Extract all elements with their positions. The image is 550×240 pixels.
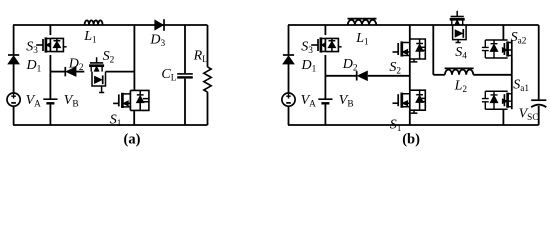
label D2 (b) <box>342 57 358 74</box>
wire Sa1 source riser (b) <box>502 109 504 125</box>
wire S3 drain (a) <box>49 25 51 35</box>
wire node to Sa1 drain (b) <box>511 75 513 91</box>
label VB (b) <box>339 93 354 110</box>
node B wire to battery (a) <box>49 72 51 99</box>
label RL <box>193 49 209 66</box>
wire node B to D2 (b) <box>325 75 356 77</box>
transistor S1 (b) <box>393 90 426 113</box>
transistor S3 (b) <box>311 37 341 52</box>
wire left branch upper (b) <box>288 25 290 55</box>
wire VB to bottom rail (a) <box>49 104 51 126</box>
wire left branch lower (a) <box>13 106 15 125</box>
transistor Sa1 <box>482 91 512 109</box>
label L2 (b) <box>454 79 468 96</box>
diode D1 (b) <box>283 55 294 93</box>
transistor S2 (b) <box>393 39 426 62</box>
label S2 (b) <box>389 60 401 77</box>
wire S3 source to node B (b) <box>324 55 326 76</box>
wire L2 to Sa rail (b) <box>473 74 512 76</box>
wire S1 source to bottom rail (a) <box>133 110 135 125</box>
capacitor CL <box>177 74 193 78</box>
svg-text:(a): (a) <box>124 132 141 148</box>
wire S2 drain riser (b) <box>409 25 411 39</box>
label S3 <box>26 39 38 56</box>
caption (b) <box>402 132 420 148</box>
label Sa1 <box>513 77 529 94</box>
resistor RL <box>204 67 211 92</box>
transistor Sa2 <box>482 40 512 58</box>
diode D1 <box>8 55 19 93</box>
label D2 (a) <box>68 57 84 74</box>
wire Sa2 drain riser (b) <box>502 25 504 40</box>
battery VB (a) <box>43 99 57 103</box>
wire RL branch lower (a) <box>207 92 209 125</box>
diode D2 (b) <box>357 71 368 80</box>
wire D2 to S2 (a) <box>76 71 85 73</box>
capacitor VSC <box>531 100 546 107</box>
wire VSC branch upper (b) <box>538 25 540 99</box>
wire CL branch lower (a) <box>184 79 186 125</box>
wire switch node riser (a) <box>133 25 135 90</box>
wire D2 to S branch (b) <box>368 75 410 77</box>
inductor L2 (b) <box>445 68 474 74</box>
wire node B to D2 (a) <box>50 71 65 73</box>
label D3 <box>149 32 165 49</box>
label S4 <box>455 45 467 62</box>
label CL <box>161 67 176 84</box>
wire bottom rail (a) <box>13 124 208 126</box>
label L1 (b) <box>355 31 369 48</box>
label S2 (a) <box>103 49 115 65</box>
wire RL branch upper (a) <box>207 25 209 67</box>
label VA <box>26 93 42 110</box>
source VA (b) <box>282 93 295 106</box>
label VA (b) <box>301 93 317 110</box>
transistor S4 <box>450 11 466 43</box>
label L1 (a) <box>83 29 97 46</box>
label Sa2 <box>511 30 527 47</box>
wire L2 lead (b) <box>433 74 445 76</box>
inductor L1 (a) <box>85 20 103 25</box>
diode D3 <box>155 19 164 31</box>
source VA <box>7 93 20 106</box>
battery VB (b) <box>318 99 332 103</box>
label D1 (b) <box>301 58 317 75</box>
wire CL branch upper (a) <box>184 25 186 73</box>
wire S2 to switch node (a) <box>106 71 135 73</box>
wire node B to battery (b) <box>324 76 326 99</box>
transistor S3 <box>36 37 66 52</box>
wire S1-S2 mid (b) <box>409 59 411 90</box>
wire S3 source to node B (a) <box>49 55 51 72</box>
inductor L1 (b) <box>348 19 377 25</box>
label D1 <box>26 58 42 75</box>
transistor S2 <box>89 57 105 92</box>
wire L2 riser (b) <box>432 25 434 75</box>
wire top rail (b) <box>288 24 539 26</box>
wire bottom rail (b) <box>288 124 539 126</box>
wire Sa2 source to node (b) <box>511 58 513 75</box>
label VSC <box>519 107 539 124</box>
wire top rail (a) <box>13 24 208 26</box>
wire left branch lower (b) <box>288 106 290 125</box>
wire VSC to bottom rail (b) <box>538 106 540 125</box>
caption (a) <box>124 132 141 148</box>
diode D2 (a) <box>65 67 76 76</box>
wire left branch upper (a) <box>13 25 15 55</box>
label S1 (b) <box>390 117 402 134</box>
label S1 (a) <box>110 113 122 130</box>
label VB (a) <box>64 93 79 110</box>
wire S3 drain (b) <box>324 25 326 35</box>
wire S1 source to bottom rail (b) <box>409 110 411 125</box>
transistor S1 <box>113 90 149 110</box>
svg-text:(b): (b) <box>402 132 420 148</box>
label S3 (b) <box>301 39 313 56</box>
wire VB to bottom rail (b) <box>324 104 326 126</box>
